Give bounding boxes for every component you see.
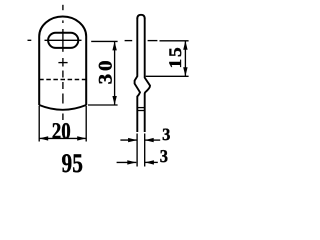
- svg-text:95: 95: [62, 148, 83, 176]
- svg-text:20: 20: [52, 119, 71, 145]
- svg-text:15: 15: [165, 45, 185, 68]
- svg-text:3: 3: [162, 126, 170, 144]
- svg-text:30: 30: [95, 58, 116, 85]
- svg-text:3: 3: [160, 147, 168, 166]
